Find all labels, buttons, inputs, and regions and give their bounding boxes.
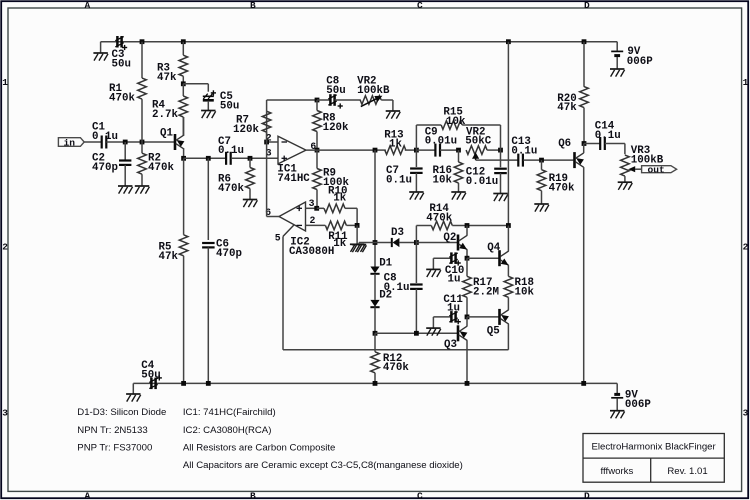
transistor Q3 PNP	[457, 325, 460, 341]
node R20 Q6 C14	[582, 141, 587, 146]
svg-text:All Resistors are Carbon Compo: All Resistors are Carbon Composite	[183, 442, 336, 453]
node IC1 pin2 junction	[264, 140, 269, 145]
ground below C7 shunt	[409, 191, 423, 193]
node Q1 emitter tee	[181, 156, 186, 161]
wire Q4 base	[467, 257, 500, 259]
ground left of C11	[426, 327, 440, 329]
ground below VR2 100kB	[386, 110, 400, 112]
wire C14 to VR3	[624, 144, 626, 155]
svg-text:2: 2	[310, 215, 316, 226]
node bottom rail R12	[373, 381, 378, 386]
wire IC2 pin5 diagonal	[283, 225, 294, 236]
wire IC2 output to IC1 pin2	[267, 216, 279, 218]
wire R11 node to ground	[356, 225, 358, 244]
svg-text:Q6: Q6	[558, 138, 571, 150]
battery 9V 006P bottom	[614, 393, 620, 396]
node top rail R3	[181, 39, 186, 44]
transistor Q6 PNP	[573, 152, 576, 168]
capacitor C8 shunt	[415, 243, 417, 284]
ground below R19	[534, 203, 548, 205]
ground below R16	[451, 191, 465, 193]
svg-text:006P: 006P	[627, 56, 653, 68]
ground below R2	[135, 185, 149, 187]
node feedback R8 top	[315, 98, 320, 103]
wire Q6 collector down	[583, 167, 585, 383]
op-amp IC1 741HC	[278, 136, 306, 164]
svg-text:IC2: CA3080H(RCA): IC2: CA3080H(RCA)	[183, 425, 272, 436]
node R14 supply Q4 collector	[506, 223, 511, 228]
resistor R3	[182, 42, 184, 56]
svg-text:1u: 1u	[447, 303, 460, 315]
svg-text:in: in	[64, 138, 76, 149]
wire top rail to battery	[616, 42, 618, 51]
node C6 branch	[206, 156, 211, 161]
ground below R11	[350, 243, 364, 245]
svg-text:out: out	[648, 164, 665, 175]
capacitor C12	[500, 150, 502, 167]
ground below bottom battery	[610, 410, 624, 412]
transistor Q5 PNP	[498, 309, 501, 325]
svg-text:D: D	[584, 491, 590, 500]
node bottom rail Q3	[465, 381, 470, 386]
resistor R5	[183, 158, 185, 235]
potentiometer VR2 50kC	[466, 146, 487, 155]
svg-text:ElectroHarmonix BlackFinger: ElectroHarmonix BlackFinger	[591, 441, 716, 452]
resistor R2	[141, 142, 143, 153]
svg-text:470k: 470k	[148, 162, 174, 174]
svg-text:0.1u: 0.1u	[511, 145, 537, 157]
node D column top	[373, 148, 378, 153]
svg-text:47k: 47k	[557, 102, 577, 114]
svg-text:2.2M: 2.2M	[473, 286, 499, 298]
svg-text:470k: 470k	[549, 182, 575, 194]
svg-text:C: C	[417, 491, 423, 500]
svg-text:5: 5	[275, 233, 281, 244]
wire bottom rail to battery	[616, 383, 618, 393]
svg-text:0.1u: 0.1u	[218, 145, 244, 157]
resistor R18	[504, 276, 513, 297]
ground below R6	[243, 199, 257, 201]
wire R15 loop	[415, 125, 417, 150]
svg-text:Q2: Q2	[443, 232, 456, 244]
wire C1 to Q1 base	[106, 141, 174, 143]
ground below C2	[118, 185, 132, 187]
svg-text:3: 3	[309, 198, 315, 209]
svg-text:1k: 1k	[389, 138, 402, 150]
svg-text:D1: D1	[379, 257, 392, 269]
resistor R16	[458, 150, 460, 162]
wire D3 row to Q2 base	[416, 242, 457, 244]
capacitor C11 electrolytic	[433, 316, 451, 318]
svg-text:3: 3	[2, 408, 8, 419]
svg-text:A: A	[85, 0, 91, 11]
port out connector	[642, 166, 677, 173]
node bottom rail R5	[181, 381, 186, 386]
ground below VR3	[618, 181, 632, 183]
svg-text:470k: 470k	[426, 212, 452, 224]
diode D2	[370, 300, 379, 307]
svg-text:0.1u: 0.1u	[595, 130, 621, 142]
wire R10 end down	[356, 208, 358, 225]
resistor R13	[375, 149, 386, 151]
svg-text:B: B	[250, 0, 256, 11]
node R6 branch	[248, 156, 253, 161]
svg-text:0.1u: 0.1u	[92, 131, 118, 143]
wire Q6 emitter up	[583, 144, 585, 154]
svg-text:All Capacitors are Ceramic exc: All Capacitors are Ceramic except C3-C5,…	[183, 460, 463, 471]
svg-text:50u: 50u	[326, 85, 345, 97]
resistor R12	[374, 333, 376, 352]
svg-text:0.01u: 0.01u	[425, 136, 457, 148]
title block box	[583, 434, 724, 483]
node D3 cathode row	[414, 240, 419, 245]
VR2 50kC wiper arrow	[475, 156, 477, 160]
svg-text:741HC: 741HC	[277, 173, 310, 185]
svg-text:fffworks: fffworks	[601, 466, 634, 477]
node C11 R17 Q3 Q5 base	[465, 315, 470, 320]
svg-text:D3: D3	[391, 227, 404, 239]
svg-text:0.1u: 0.1u	[384, 282, 410, 294]
transistor Q4 NPN	[498, 250, 501, 266]
resistor R15	[441, 121, 462, 130]
svg-text:Q3: Q3	[444, 339, 457, 351]
svg-text:470k: 470k	[109, 93, 135, 105]
wire bottom rail left to ground	[132, 383, 134, 394]
svg-text:Rev. 1.01: Rev. 1.01	[667, 466, 707, 477]
node bottom rail C6	[206, 381, 211, 386]
svg-text:470p: 470p	[92, 162, 118, 174]
wire Q4 emitter to R18	[507, 265, 509, 276]
wire D column	[374, 150, 376, 266]
capacitor C8 feedback electrolytic	[317, 99, 330, 101]
wire Q3 collector down	[466, 340, 468, 383]
resistor R9	[316, 150, 318, 168]
svg-text:470k: 470k	[383, 362, 409, 374]
svg-text:2: 2	[2, 242, 8, 253]
resistor R20	[583, 42, 585, 87]
svg-text:3: 3	[743, 408, 749, 419]
node top rail R1	[140, 39, 145, 44]
svg-text:120k: 120k	[323, 122, 349, 134]
ground left of C10	[426, 268, 440, 270]
capacitor C6	[207, 158, 209, 240]
potentiometer VR2 100kB feedback	[360, 96, 381, 105]
resistor R7	[266, 111, 268, 142]
capacitor C5 electrolytic	[203, 95, 214, 97]
svg-text:CA3080H: CA3080H	[289, 246, 334, 258]
svg-text:Q1: Q1	[160, 127, 173, 139]
resistor R8	[316, 100, 318, 111]
wire Q5 emitter up	[507, 297, 509, 310]
resistor R14	[416, 225, 431, 227]
wire IC1 output	[306, 149, 375, 151]
wire Q2 collector up	[466, 226, 468, 236]
resistor R17	[466, 258, 468, 276]
wire IC1 pin2	[267, 141, 278, 143]
svg-text:50kC: 50kC	[465, 136, 491, 148]
resistor R1	[141, 42, 143, 78]
wire Q3 base row	[375, 332, 457, 334]
svg-text:470k: 470k	[218, 183, 244, 195]
VR2 100kB wiper arrow	[361, 98, 378, 106]
resistor R11	[325, 221, 346, 230]
capacitor C4 electrolytic (in bottom rail)	[150, 378, 153, 390]
ground left of D column	[352, 244, 366, 246]
wire supply column	[507, 42, 509, 226]
capacitor C9	[416, 149, 435, 151]
svg-text:A: A	[85, 491, 91, 500]
svg-text:2.7k: 2.7k	[152, 109, 178, 121]
wire Q3 emitter up	[466, 317, 468, 326]
svg-text:PNP Tr: FS37000: PNP Tr: FS37000	[77, 442, 152, 453]
svg-text:2: 2	[743, 242, 749, 253]
diode D1	[370, 267, 379, 274]
node D3 row left	[373, 240, 378, 245]
svg-text:IC1: 741HC(Fairchild): IC1: 741HC(Fairchild)	[183, 407, 276, 418]
op-amp IC2 CA3080H	[279, 202, 306, 231]
ground near C3	[93, 52, 107, 54]
wire -9V bottom rail	[133, 382, 617, 384]
node IC1 output	[315, 148, 320, 153]
resistor R4	[182, 84, 184, 96]
node top rail R20	[582, 39, 587, 44]
svg-text:120k: 120k	[233, 124, 259, 136]
wire C7 to IC1 pin3	[231, 157, 278, 159]
resistor R19	[541, 160, 543, 170]
svg-text:50u: 50u	[112, 59, 131, 71]
wire +9V top rail	[101, 41, 618, 43]
svg-text:10k: 10k	[433, 175, 453, 187]
capacitor C1	[101, 136, 103, 149]
wire Q1 collector down	[183, 149, 185, 158]
ground near C4	[126, 393, 140, 395]
node VR2 right C12 R15	[498, 148, 503, 153]
wire in to C1	[84, 141, 102, 143]
svg-text:1k: 1k	[333, 193, 346, 205]
diode D3	[375, 242, 392, 244]
node R9 R10 pin3	[314, 206, 319, 211]
wire R3R4 node to C5	[183, 83, 208, 85]
node R10 R11 junction	[355, 223, 360, 228]
svg-text:0.1u: 0.1u	[386, 175, 412, 187]
wire emitter tee to C7	[184, 157, 226, 159]
node top rail supply column	[506, 39, 511, 44]
transistor Q1 PNP	[174, 134, 177, 150]
capacitor C7 shunt	[415, 150, 417, 167]
ground below C12	[493, 193, 507, 195]
capacitor C14	[584, 143, 600, 145]
svg-text:100kB: 100kB	[357, 85, 390, 97]
capacitor C10 electrolytic	[433, 257, 451, 259]
svg-text:470p: 470p	[216, 248, 242, 260]
svg-text:1: 1	[743, 77, 749, 88]
node bottom rail Q6	[581, 381, 586, 386]
wire C13 to Q6 base	[523, 159, 573, 161]
svg-text:D1-D3: Silicon Diode: D1-D3: Silicon Diode	[77, 407, 166, 418]
wire wiper row to C13	[476, 159, 518, 161]
svg-text:C: C	[417, 0, 423, 11]
ground below C5	[201, 110, 215, 112]
svg-text:Q5: Q5	[487, 326, 500, 338]
wire IC2 pin5 down	[282, 236, 284, 349]
svg-text:1u: 1u	[448, 274, 461, 286]
node C9 C7 R15 junction	[414, 148, 419, 153]
node D2 bottom row	[373, 331, 378, 336]
svg-text:47k: 47k	[157, 72, 177, 84]
wire Q4 collector up	[507, 226, 509, 252]
svg-text:47k: 47k	[159, 251, 179, 263]
wire R14 riser	[415, 226, 417, 243]
svg-text:10k: 10k	[446, 116, 466, 128]
wire Q5 base	[467, 316, 500, 318]
svg-text:NPN Tr: 2N5133: NPN Tr: 2N5133	[77, 425, 147, 436]
capacitor C2	[124, 142, 126, 161]
svg-text:D: D	[584, 0, 590, 11]
svg-text:1k: 1k	[333, 238, 346, 250]
node VR2 left R16	[456, 148, 461, 153]
svg-text:0.01u: 0.01u	[466, 176, 498, 188]
port in connector	[58, 138, 84, 147]
svg-text:50u: 50u	[141, 369, 160, 381]
wire Q2 emitter down	[466, 250, 468, 259]
capacitor C7 series	[225, 152, 227, 165]
node R1 R2 branch	[140, 140, 145, 145]
svg-text:1: 1	[2, 77, 8, 88]
wire Q1 emitter to R4	[183, 117, 185, 135]
svg-text:50u: 50u	[220, 101, 239, 113]
resistor R6	[249, 158, 251, 167]
ground below top battery	[610, 68, 624, 70]
node C8 bottom row	[414, 331, 419, 336]
wire top rail left drop to ground	[100, 42, 102, 53]
potentiometer VR3 100kB	[621, 155, 630, 176]
transistor Q2 NPN	[457, 235, 460, 251]
wire IC2 pin3	[306, 207, 317, 209]
node R14 Q2 collector	[465, 223, 470, 228]
svg-text:006P: 006P	[625, 399, 651, 411]
VR3 wiper arrow	[628, 166, 635, 172]
wire R7 top feedback	[266, 100, 268, 111]
wire D3 row ground stub	[359, 242, 375, 244]
svg-text:B: B	[250, 491, 256, 500]
svg-text:Q4: Q4	[487, 242, 500, 254]
node Q2 emitter C10 R17 Q4 base	[465, 256, 470, 261]
wire Q5 collector down	[507, 324, 509, 350]
node C2 branch	[123, 140, 128, 145]
wire IC2 pin2	[306, 224, 326, 226]
capacitor C13	[517, 154, 519, 167]
capacitor C3 (in top rail)	[116, 36, 119, 48]
wire IC2 pin5 across	[283, 349, 508, 351]
battery 9V 006P top	[611, 50, 623, 52]
resistor R10	[317, 207, 324, 209]
node R3 R4 C5	[181, 81, 186, 86]
svg-text:10k: 10k	[515, 286, 535, 298]
node R19 branch	[539, 158, 544, 163]
